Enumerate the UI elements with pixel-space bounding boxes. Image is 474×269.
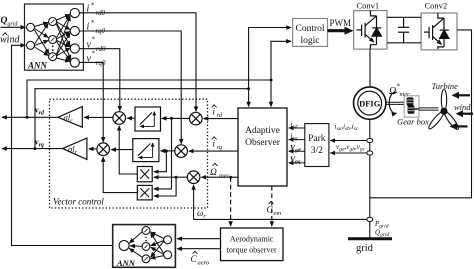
svg-text:*: * [91, 19, 95, 27]
svg-text:grid: grid [356, 243, 374, 254]
svg-text:*: * [92, 50, 96, 58]
ANN U2 hidden ellipsis dots [145, 237, 147, 242]
node stator current tap [367, 138, 373, 142]
junction v_rd riser [26, 116, 29, 119]
ANN U1 hidden neuron 2 [49, 36, 57, 44]
label v_ga v_gb v_gc [336, 143, 366, 153]
wire Q_grid into ANN [1, 26, 26, 28]
junction row1 tap [170, 117, 173, 120]
Conv1 block [354, 11, 387, 50]
svg-text:em: em [274, 210, 282, 217]
junction Omega_mec dashed tap [229, 176, 232, 179]
junction x248.6 bus [247, 87, 250, 90]
ANN U1 hidden layer ellipsis dots [52, 46, 54, 52]
wire M2 output to amplifier A2 [89, 148, 97, 150]
aerodynamic torque observer block [221, 228, 284, 261]
svg-text:3/2: 3/2 [311, 146, 323, 156]
svg-text:Vector control: Vector control [53, 197, 104, 207]
ANN U2 input neuron 2 [164, 251, 172, 259]
shaft DFIG to gear box [386, 102, 404, 104]
svg-text:Turbine: Turbine [432, 81, 459, 91]
wire i*_rq0 from ANN to multiplier M4 [79, 31, 181, 144]
wire v_rd feedback riser to top bus [27, 80, 271, 117]
wire wind estimate into ANN (from bottom ANN loop) [12, 45, 120, 245]
wire DC link top rail [387, 16, 421, 18]
wire Park i_sd to observer [289, 127, 305, 129]
Park 3/2 transform block [305, 124, 329, 167]
control logic block [293, 19, 328, 47]
wire PWM thick arrow to Conv1 [328, 27, 354, 35]
svg-text:torque observer: torque observer [227, 246, 277, 255]
wire omega_r riser into M5 bottom [193, 185, 195, 219]
ANN U1 synapse arrows input-to-hidden [35, 23, 50, 56]
wire DFIG stator down to grid [369, 119, 371, 237]
wire aero observer output 1 to bottom ANN [177, 238, 220, 240]
wire C_em dashed from observer to aerodynamic observer [271, 186, 273, 226]
ANN U1 synapse arrows hidden-to-output [56, 14, 70, 61]
node grid voltage tap [367, 151, 373, 155]
svg-text:logic: logic [301, 36, 320, 46]
saturation block S2 [133, 139, 159, 162]
svg-text:aero: aero [198, 260, 210, 267]
ANN U2 hidden neuron 1 [142, 227, 150, 235]
capacitor C1 DC link [398, 17, 409, 43]
junction v_rq riser [34, 147, 37, 150]
ANN U1 output neuron 4 [70, 58, 79, 67]
svg-text:Gear box: Gear box [397, 117, 429, 127]
vector control dotted boundary box [50, 99, 208, 208]
ANN U1 input neuron 2 [27, 41, 35, 49]
ANN U1 output neuron 2 [70, 26, 79, 35]
wire omega_r horizontal from grid bus [194, 218, 367, 220]
ANN block U2 (bottom wind-speed estimator) [113, 225, 176, 268]
svg-text:Conv1: Conv1 [357, 1, 380, 11]
multiplier box X2 [137, 185, 152, 200]
wire M5 output to X1 input b [154, 176, 187, 178]
multiplier M4 (circle-X, row2 right) [175, 145, 188, 158]
label Omega*_mec [389, 83, 410, 99]
ANN U2 input neuron 1 [164, 236, 172, 244]
junction row2 tap [165, 150, 168, 153]
svg-text:C: C [267, 205, 274, 215]
wire Park V_gd to observer [289, 150, 305, 152]
wire v_rd output (to left edge) [2, 116, 58, 118]
junction M5 output branch [175, 176, 178, 179]
junction grid PQ tap node [367, 217, 373, 221]
rotation arc arrow on shaft [389, 92, 397, 113]
wire M4 output to S2 input [161, 150, 175, 152]
svg-text:rd: rd [217, 112, 223, 119]
label C_em estimate [267, 201, 282, 217]
label i_rq estimate [212, 137, 223, 151]
multiplier M2 (circle-X, row2 left) [97, 143, 110, 156]
ANN U2 synapse arrows hidden-to-output [129, 232, 142, 257]
Conv2 IGBT with diode [424, 13, 449, 49]
wind arrow 1 [452, 92, 471, 99]
generator DFIG [354, 87, 386, 119]
svg-text:PWM: PWM [330, 18, 352, 28]
wire M1 output to amplifier A1 [84, 116, 113, 118]
Conv2 block [421, 13, 457, 50]
shaft gear box to turbine [419, 108, 439, 110]
saturation block S1 [135, 107, 161, 131]
ANN U1 output neuron 1 [70, 8, 79, 17]
ANN U1 hidden neuron 3 [49, 53, 57, 61]
label i_rd estimate [212, 105, 223, 119]
ANN U2 hidden neuron 2 [142, 243, 150, 251]
wire aero observer output 2 to bottom ANN [177, 248, 220, 250]
svg-text:*: * [397, 83, 401, 91]
wire Conv1 to DFIG rotor [369, 49, 371, 87]
svg-text:Observer: Observer [245, 138, 281, 148]
node v_wind estimate label [0, 33, 20, 46]
wire Omega_mec dashed to aerodynamic observer [230, 177, 232, 226]
label Omega_mec estimate [210, 163, 230, 179]
gain amplifier A2 sigma-l_r (row 2) [63, 138, 87, 159]
svg-text:mec: mec [219, 173, 230, 180]
adaptive observer block [238, 108, 287, 186]
wire S2 output to M2 [111, 149, 133, 151]
wire tap row2 current down to X1 input a [154, 151, 167, 172]
wire Park i_sq to observer [289, 139, 305, 141]
label C_aero estimate [191, 251, 210, 266]
wire DC link bottom rail [387, 42, 421, 44]
svg-text:wind: wind [0, 35, 20, 46]
multiplier M1 (circle-X, row1 left) [113, 112, 126, 125]
gear box block [404, 96, 419, 117]
wind arrow 2 [456, 110, 474, 117]
label v*_rq0 [87, 50, 106, 68]
turbine rotor [427, 90, 460, 131]
wire Conv2 output to grid bus [370, 30, 472, 198]
svg-text:Aerodynamic: Aerodynamic [230, 235, 274, 244]
wind arrow 3 [450, 123, 468, 130]
label v*_rd0 [87, 36, 106, 54]
ANN block U1 (top-left neural network) [25, 4, 84, 70]
wire observer i_rd to M3 [204, 118, 238, 120]
svg-text:Control: Control [295, 24, 324, 34]
wire v*_rq0 from ANN to multiplier M2 [79, 62, 103, 141]
wire observer i_rq to M4 [189, 150, 238, 152]
ground symbol grid bar [348, 237, 392, 240]
wire Park V_gq to observer [289, 162, 305, 164]
wire v_rq output (to left edge) [2, 148, 63, 150]
svg-text:C: C [191, 254, 198, 264]
wire M3 output to S1 input [162, 117, 190, 119]
wire X2 output up into M2 [103, 157, 137, 193]
svg-text:ANN: ANN [116, 258, 136, 268]
multiplier M5 (circle-X, speed row) [187, 171, 200, 184]
label i*_rq0 [87, 19, 106, 35]
wire v*_rd0 from ANN to multiplier M1 [79, 49, 119, 111]
wire bus x271 up to control logic input 2 and down to observer [271, 41, 291, 80]
svg-text:Adaptive: Adaptive [245, 126, 280, 136]
wire X1 output up into M1 [119, 126, 137, 174]
svg-text:rq: rq [217, 144, 223, 151]
wire grid voltages to Park [330, 152, 367, 154]
ANN U1 input neuron 1 [27, 23, 35, 31]
ANN U2 synapse arrows input-to-hidden [151, 232, 164, 258]
wire tap row1 current down to X2 input b [154, 118, 172, 188]
Conv1 IGBT with diode [356, 11, 381, 50]
junction x271 bus [270, 79, 273, 82]
svg-text:Ω: Ω [389, 86, 396, 97]
ANN U1 hidden neuron 1 [49, 18, 57, 26]
ANN U2 hidden neuron 3 [142, 255, 150, 263]
svg-text:Ω: Ω [210, 168, 217, 178]
wire M5 output branch down to X2 input a [154, 177, 176, 196]
wire observer Omega_mec to M5 [201, 176, 238, 178]
multiplier box X1 [137, 167, 152, 182]
wire v_rq feedback riser to second bus [35, 89, 249, 149]
label i*_rd0 [87, 2, 106, 18]
label i_sa i_sb i_sc [335, 123, 359, 133]
gain amplifier A1 sigma-l_r (row 1) [58, 107, 82, 128]
svg-text:Park: Park [308, 134, 326, 144]
wire bus x271 down into observer top [270, 80, 272, 107]
wire bus x248.6 down into observer top [248, 89, 250, 107]
ANN U1 output neuron 3 [70, 44, 79, 53]
svg-text:DFIG: DFIG [359, 98, 381, 108]
svg-text:*: * [91, 2, 95, 10]
wire stator currents to Park [330, 140, 367, 142]
multiplier M3 (circle-X, row1 right) [190, 112, 203, 125]
svg-text:rq0: rq0 [96, 59, 106, 67]
wire bus x248.6 up to control logic input 1 [249, 28, 291, 89]
wire S1 output to M1 [127, 117, 135, 119]
svg-text:Conv2: Conv2 [425, 1, 448, 11]
svg-text:ANN: ANN [27, 61, 48, 71]
ANN U2 output neuron [119, 241, 129, 251]
wire i*_rd0 from ANN to multiplier M3 [79, 13, 196, 111]
svg-text:*: * [92, 36, 96, 44]
